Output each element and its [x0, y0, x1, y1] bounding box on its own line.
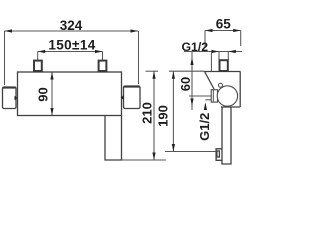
dimension 150±14 line [38, 51, 103, 53]
top reference tick line left [146, 70, 159, 72]
dimension 190 line [172, 71, 174, 151]
body front view [18, 72, 122, 116]
svg-text:210: 210 [139, 102, 154, 124]
arrowhead 60 top [190, 58, 193, 66]
arrowhead 65 right [233, 29, 241, 32]
dimension G1/2 top line [184, 51, 242, 53]
side view body right edge [239, 72, 241, 108]
valve circle side view [217, 86, 237, 106]
dimension 324 extension line left [4, 31, 6, 85]
side view body top [205, 71, 241, 73]
svg-text:190: 190 [156, 105, 171, 127]
svg-text:150±14: 150±14 [48, 38, 95, 53]
pipe front view [105, 116, 122, 161]
svg-text:90: 90 [35, 87, 50, 101]
arrowhead 65 left [205, 29, 213, 32]
left knob top edge [3, 87, 17, 89]
dimension 324 line [5, 30, 139, 32]
G1/2 bottom leader line [204, 104, 206, 110]
dimension 65 line [205, 30, 241, 32]
side view pipe [222, 107, 231, 164]
top reference tick line right [169, 70, 205, 72]
right knob [124, 86, 141, 109]
side view body bottom [221, 106, 240, 108]
svg-text:60: 60 [178, 77, 193, 91]
arrowhead 150 left [38, 50, 46, 53]
dimension 150±14 extension right [102, 52, 104, 61]
hose outlet leader line [165, 151, 216, 153]
dimension 150±14 extension left [37, 52, 39, 61]
hidden edge line left of stub [210, 53, 212, 72]
arrowhead G1/2 right inward [228, 50, 236, 53]
dimension 60 line [191, 52, 193, 110]
G1/2 extension right [227, 52, 229, 61]
side view nipple [211, 90, 217, 102]
dimension 65 extension left [204, 31, 206, 48]
svg-text:G1/2: G1/2 [181, 40, 208, 54]
arrowhead 60 bottom [190, 99, 193, 107]
dimension 210 line [153, 71, 155, 160]
hose outlet fitting inner [217, 151, 220, 157]
dimension 324 extension line right [138, 31, 140, 84]
G1/2 extension left [218, 52, 220, 61]
inlet stub right (front) [99, 61, 107, 71]
nipple centerline [189, 95, 211, 97]
left knob indicator mark [15, 96, 18, 101]
side view body left slant [205, 72, 215, 90]
right knob top edge [124, 86, 141, 88]
small screw circle [219, 83, 223, 87]
svg-text:324: 324 [60, 18, 83, 33]
arrowhead 90 bottom [50, 108, 53, 116]
arrowhead 210 top [152, 71, 155, 79]
arrowhead 90 top [50, 72, 53, 80]
inlet stub left (front) [34, 61, 42, 71]
arrowhead 190 bottom [172, 144, 175, 152]
inlet stub (side) [220, 60, 228, 71]
arrowhead 210 bottom [152, 153, 155, 161]
right knob indicator mark [121, 95, 124, 100]
arrowhead 150 right [95, 50, 103, 53]
arrowhead 324 right [131, 29, 139, 32]
arrowhead 324 left [5, 29, 13, 32]
arrowhead G1/2 bottom leader [204, 103, 207, 111]
arrowhead 190 top [172, 71, 175, 79]
left knob [3, 87, 17, 109]
nipple face line [212, 90, 214, 102]
hose outlet fitting [216, 149, 222, 161]
bottom reference tick line [122, 159, 167, 161]
svg-text:65: 65 [216, 17, 232, 32]
svg-text:G1/2: G1/2 [197, 113, 212, 141]
nipple lower line [205, 99, 211, 101]
dimension 65 extension right [240, 31, 242, 47]
dimension 90 line [51, 72, 53, 116]
arrowhead G1/2 left inward [212, 50, 220, 53]
